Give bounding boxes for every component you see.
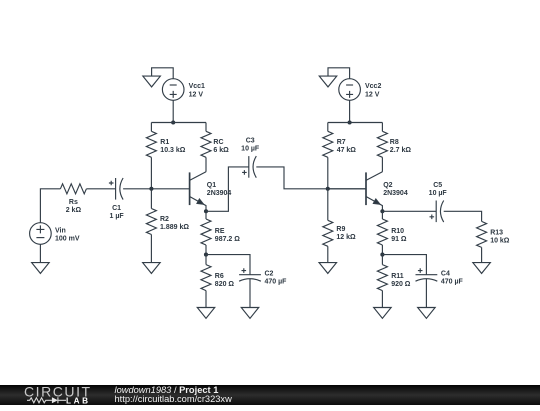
CircuitLab logo [24,385,99,411]
wire emitter-divider node to C4 [382,255,426,275]
ground under R11 [374,308,392,319]
svg-text:1.889 kΩ: 1.889 kΩ [160,224,189,231]
svg-text:10 µF: 10 µF [429,190,448,197]
wire Vcc1 top to ground [152,68,174,79]
svg-text:10 kΩ: 10 kΩ [490,237,510,244]
svg-text:100 mV: 100 mV [55,235,80,242]
resistor R8 2.7 k&#937; [377,123,411,172]
ground under R9 [319,263,337,274]
svg-text:Vcc2: Vcc2 [365,83,381,90]
svg-text:RE: RE [215,228,225,235]
node Vcc2/rail junction [348,120,352,124]
svg-text:12 V: 12 V [189,91,204,98]
wire top rail stage 1 [151,122,206,124]
wire C3 to base node 2 [256,167,366,189]
wire C1 to base node 1 [123,188,151,190]
footer meta text [115,386,232,404]
node base junction stage 1 [149,187,153,191]
svg-text:R7: R7 [337,139,346,146]
svg-text:Q2: Q2 [383,182,392,189]
ground under C2 [241,308,259,319]
wire base to Q2 [328,188,366,190]
svg-text:12 V: 12 V [365,91,380,98]
svg-text:C1: C1 [112,205,121,212]
svg-text:R2: R2 [160,216,169,223]
svg-text:R1: R1 [160,139,169,146]
ground under C4 [418,308,436,319]
ground under R2 [143,263,161,274]
ground under R13 [473,263,491,274]
node base junction stage 2 [326,187,330,191]
resistor RC 6 k&#937; [201,123,229,172]
svg-text:2N3904: 2N3904 [207,190,232,197]
svg-text:10.3 kΩ: 10.3 kΩ [160,147,185,154]
svg-text:2N3904: 2N3904 [383,190,408,197]
resistor R9 12 k&#937; [323,189,356,263]
resistor R2 1.889 k&#937; [146,189,189,263]
wire C2 to ground [249,279,251,308]
resistor Rs 2 k&#937; [60,184,86,214]
svg-text:470 µF: 470 µF [265,278,288,285]
wire C4 to ground [425,279,427,308]
resistor R6 820 &#937; [201,255,234,308]
svg-text:R10: R10 [391,228,404,235]
capacitor C1 1 &#181;F [109,178,124,220]
footer bar [0,385,540,406]
svg-text:R6: R6 [215,273,224,280]
resistor R1 10.3 k&#937; [146,123,185,189]
wire Vcc2 top to ground [328,68,350,79]
svg-text:987.2 Ω: 987.2 Ω [215,236,240,243]
wire Q2 emitter to C5 [382,210,436,212]
svg-text:Q1: Q1 [207,182,216,189]
voltage source Vcc1 12 V [162,79,205,101]
resistor R7 47 k&#937; [323,123,357,189]
wire C5 to R13 [444,211,482,221]
svg-text:10 µF: 10 µF [241,145,260,152]
wire emitter-divider node to C2 [206,255,250,275]
svg-text:R9: R9 [336,226,345,233]
svg-text:920 Ω: 920 Ω [391,281,411,288]
capacitor C3 10 &#181;F [241,137,260,177]
svg-text:820 Ω: 820 Ω [215,281,235,288]
svg-text:Vcc1: Vcc1 [189,83,205,90]
svg-text:6 kΩ: 6 kΩ [213,147,229,154]
node emitter-divider junction stage 2 [380,253,384,257]
ground G1a (Vcc1 return) [143,76,161,87]
svg-text:12 kΩ: 12 kΩ [336,234,356,241]
ground under Vin [32,263,50,274]
wire base to Q1 [151,188,189,190]
wire Vin to ground [39,244,41,262]
capacitor C4 470 &#181;F [416,268,464,285]
resistor R13 10 k&#937; [477,221,510,262]
svg-text:R8: R8 [390,139,399,146]
svg-text:2.7 kΩ: 2.7 kΩ [390,147,412,154]
wire Vcc1 to rail [172,100,174,122]
svg-text:LAB: LAB [66,396,91,405]
svg-text:Vin: Vin [55,227,66,234]
svg-text:2 kΩ: 2 kΩ [66,207,82,214]
svg-text:Rs: Rs [69,199,78,206]
svg-text:C4: C4 [441,270,450,277]
transistor Q1 2N3904 [190,172,232,212]
voltage source Vcc2 12 V [339,79,382,101]
wire top rail stage 2 [328,122,383,124]
resistor R10 91 &#937; [377,211,407,254]
node emitter junction stage 1 [204,209,208,213]
node emitter-divider junction stage 1 [204,253,208,257]
node Vcc1/rail junction [171,120,175,124]
svg-text:C2: C2 [265,270,274,277]
wire Q1 emitter to C3 [206,167,249,211]
resistor RE 987.2 &#937; [201,211,240,254]
transistor Q2 2N3904 [366,172,408,212]
wire Rs to C1 [86,188,115,190]
svg-text:47 kΩ: 47 kΩ [337,147,357,154]
svg-text:R13: R13 [490,229,503,236]
svg-text:C3: C3 [246,137,255,144]
svg-text:RC: RC [213,139,223,146]
svg-text:1 µF: 1 µF [110,213,125,220]
svg-text:R11: R11 [391,273,404,280]
wire Vin to Rs [40,189,60,223]
svg-text:C5: C5 [433,182,442,189]
capacitor C5 10 &#181;F [429,182,448,222]
wire Vcc2 to rail [349,100,351,122]
node emitter junction stage 2 [380,209,384,213]
ground G2a (Vcc2 return) [319,76,337,87]
resistor R11 920 &#937; [377,255,410,308]
voltage source Vin 100 mV [30,223,80,245]
svg-text:91 Ω: 91 Ω [391,236,407,243]
svg-text:470 µF: 470 µF [441,278,464,285]
ground under R6 [197,308,215,319]
capacitor C2 470 &#181;F [239,268,287,285]
